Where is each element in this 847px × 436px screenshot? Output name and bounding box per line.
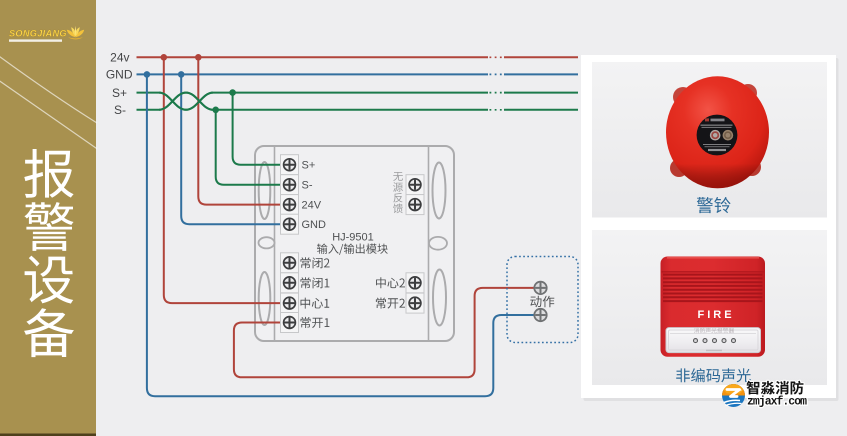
wire S+ to module S+ green drop bbox=[233, 93, 284, 165]
module mounting slot bottom-right bbox=[433, 270, 446, 326]
terminal S- pin bbox=[281, 175, 299, 195]
net label 24v bbox=[110, 51, 129, 65]
wire 24v bus bbox=[137, 56, 579, 58]
module mounting slot bottom-left bbox=[259, 272, 271, 325]
svg-text:GND: GND bbox=[106, 68, 133, 82]
caption 警铃 bbox=[697, 197, 731, 213]
svg-text:S+: S+ bbox=[112, 86, 127, 100]
pin label S+ bbox=[302, 160, 316, 172]
product photo fire bell bbox=[666, 76, 769, 188]
module side ear left bbox=[259, 237, 275, 248]
terminal 无源反馈-2 pin bbox=[406, 195, 424, 215]
wire GND to module GND blue drop bbox=[181, 74, 284, 224]
junction GND-right bbox=[178, 71, 185, 78]
logo SONGJIANG bbox=[9, 26, 84, 42]
terminal 常闭1 pin bbox=[281, 273, 299, 293]
bell label disc bbox=[697, 115, 738, 156]
terminal 常开2 pin bbox=[406, 293, 424, 313]
label 动作 bbox=[530, 296, 554, 308]
terminal 动作+ bbox=[534, 282, 546, 294]
terminal 中心1 pin bbox=[281, 293, 299, 313]
svg-text:S-: S- bbox=[114, 103, 126, 117]
wire S- bus with twisted pair bbox=[137, 93, 579, 110]
watermark text 智淼消防 bbox=[747, 381, 804, 395]
terminal S+ pin bbox=[281, 155, 299, 175]
module name HJ-9501 bbox=[332, 232, 374, 244]
pin label 常闭2 bbox=[301, 257, 330, 268]
wire 24v to module 24V red drop bbox=[198, 57, 284, 204]
terminal 24V pin bbox=[281, 195, 299, 215]
terminal 中心2 pin bbox=[406, 273, 424, 293]
terminal GND pin bbox=[281, 214, 299, 234]
product panel bbox=[581, 55, 839, 401]
svg-text:FIRE: FIRE bbox=[697, 309, 734, 321]
caption 非编码声光 bbox=[676, 368, 751, 382]
terminal 常闭2 pin bbox=[281, 253, 299, 273]
pin label S- bbox=[302, 180, 313, 192]
pin label 24V bbox=[302, 200, 322, 212]
module side ear right bbox=[429, 237, 447, 250]
module U1 HJ-9501 body bbox=[255, 146, 454, 341]
svg-text:24V: 24V bbox=[302, 200, 322, 212]
wire S+ bus with twisted pair bbox=[137, 93, 579, 110]
terminal 动作- bbox=[534, 309, 546, 321]
junction S- bbox=[212, 107, 219, 114]
junction GND-left bbox=[144, 71, 151, 78]
net label S- bbox=[114, 103, 126, 117]
label 无源反馈 bbox=[393, 172, 403, 213]
wire 常开1 to 动作 terminal red bbox=[234, 288, 535, 377]
junction 24v-left bbox=[161, 54, 168, 61]
terminal 常开1 pin bbox=[281, 313, 299, 333]
svg-text:HJ-9501: HJ-9501 bbox=[332, 232, 374, 244]
pin label 常开1 bbox=[301, 317, 330, 328]
pin label 中心2 bbox=[376, 277, 405, 288]
module mounting slot top-left bbox=[259, 162, 271, 219]
junction S+ bbox=[229, 89, 236, 96]
watermark logo icon bbox=[722, 384, 745, 407]
module name 输入/输出模块 bbox=[317, 244, 388, 255]
net label S+ bbox=[112, 86, 127, 100]
svg-text:S-: S- bbox=[302, 180, 313, 192]
svg-text:24v: 24v bbox=[110, 51, 129, 65]
wire twisted-pair overlay bbox=[159, 93, 213, 110]
net label GND bbox=[106, 68, 133, 82]
junction 24v-right bbox=[195, 54, 202, 61]
sidebar title 报警设备 bbox=[24, 149, 74, 357]
wire GND bus bbox=[137, 73, 579, 75]
svg-text:S+: S+ bbox=[302, 160, 316, 172]
wire 24v to 中心1 red drop bbox=[164, 57, 284, 303]
wire GND to 动作 terminal blue drop bbox=[147, 74, 535, 396]
wire S- to module S- green drop bbox=[216, 110, 284, 185]
svg-text:SONGJIANG: SONGJIANG bbox=[9, 29, 67, 39]
svg-text:zmjaxf.com: zmjaxf.com bbox=[747, 395, 807, 408]
dashed box 动作 device bbox=[507, 257, 578, 343]
sidebar banner bbox=[0, 0, 96, 436]
module mounting slot top-right bbox=[433, 163, 446, 219]
watermark text zmjaxf.com bbox=[747, 395, 807, 408]
pin label 常开2 bbox=[376, 298, 405, 309]
svg-text:GND: GND bbox=[302, 219, 327, 231]
pin label 中心1 bbox=[301, 298, 330, 309]
product photo strobe sounder bbox=[661, 257, 766, 357]
pin label 常闭1 bbox=[301, 277, 330, 288]
terminal 无源反馈-1 pin bbox=[406, 175, 424, 195]
pin label GND bbox=[302, 219, 327, 231]
